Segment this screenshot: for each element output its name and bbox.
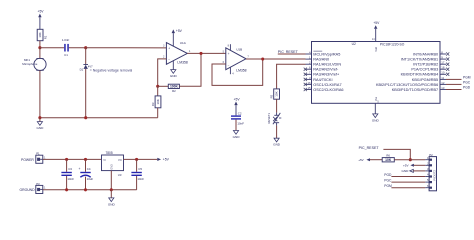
svg-text:R2: R2	[172, 89, 176, 93]
capacitor C3	[61, 159, 74, 189]
svg-text:Microphone: Microphone	[22, 62, 37, 66]
wire D1 node to op-amp U1A + input	[86, 47, 167, 49]
svg-text:+: +	[228, 52, 230, 56]
svg-text:POWER: POWER	[21, 158, 34, 162]
svg-text:C2: C2	[238, 111, 242, 115]
svg-text:+5V: +5V	[163, 158, 170, 162]
wire U1A output to U1B + input	[187, 52, 226, 54]
svg-text:U1B: U1B	[236, 48, 242, 52]
net label PIC_RESET at MCLR	[278, 50, 306, 54]
net PGC wire to P2 pin 5	[384, 179, 425, 183]
resistor R6	[382, 154, 394, 163]
capacitor C5	[131, 159, 144, 189]
P2 pin 2	[425, 161, 432, 166]
svg-text:C1: C1	[64, 53, 68, 57]
svg-text:+5V: +5V	[176, 29, 183, 33]
ground symbol (C2)	[233, 131, 238, 135]
wire R1 bottom to node	[39, 41, 41, 48]
node ground rail / D1	[84, 116, 87, 119]
svg-text:INT2/P1B/RB2: INT2/P1B/RB2	[413, 63, 438, 67]
net PGM wire	[446, 76, 471, 80]
svg-text:R1: R1	[43, 35, 47, 39]
svg-text:+5V: +5V	[234, 97, 241, 101]
svg-text:GND: GND	[402, 169, 410, 173]
svg-text:R5: R5	[270, 94, 274, 98]
svg-text:P2: P2	[429, 153, 433, 157]
node U1B output / feedback	[261, 58, 264, 61]
capacitor C2	[231, 111, 244, 125]
svg-text:13: 13	[441, 86, 445, 90]
svg-text:RESET1: RESET1	[267, 113, 271, 124]
svg-text:RA2/AN2/Vref-: RA2/AN2/Vref-	[313, 68, 339, 72]
svg-text:16: 16	[307, 81, 311, 85]
microcontroller U2 PIC18F1220	[312, 42, 441, 104]
svg-text:= Negative voltage removal: = Negative voltage removal	[90, 68, 133, 72]
connector P1 POWER	[21, 152, 46, 164]
+5V supply at P2 pin 2	[403, 164, 425, 168]
svg-text:P1A/CCP1/RB3: P1A/CCP1/RB3	[411, 68, 438, 72]
svg-text:PIC_RESET: PIC_RESET	[359, 146, 380, 150]
resistor R5	[270, 89, 280, 99]
svg-text:12: 12	[441, 81, 445, 85]
P2 pin 3	[425, 167, 432, 172]
U2 right pin 10 KBI0/DT/RX/AN6/RB4	[401, 71, 450, 77]
svg-text:10nF: 10nF	[237, 122, 244, 126]
net PGD wire	[446, 86, 471, 90]
wire POWER to 7805 input	[43, 158, 102, 160]
svg-text:GND: GND	[372, 118, 380, 122]
P2 pin 4	[425, 173, 432, 178]
svg-text:10uF: 10uF	[87, 177, 94, 181]
svg-text:+: +	[78, 167, 80, 171]
U2 left pin 16 OSC1/CLKI/RA7	[304, 81, 342, 87]
U2 left pin 3 RA4/T0CKI	[304, 76, 333, 82]
resistor R2	[168, 84, 179, 93]
U2 left pin 2 RA1/AN1/LVDIN	[306, 61, 342, 67]
ground rail wire (power section)	[43, 189, 137, 191]
wire 7805 GND pin to ground rail	[110, 171, 112, 190]
ground symbol (mic section)	[36, 118, 44, 130]
resistor R1	[37, 29, 47, 40]
svg-text:PGD: PGD	[463, 86, 471, 90]
svg-text:U1A: U1A	[180, 41, 187, 45]
node U1A output / feedback	[199, 52, 202, 55]
svg-text:U3: U3	[118, 173, 122, 177]
node ground rail / C4	[84, 188, 87, 191]
svg-text:PGC: PGC	[463, 81, 471, 85]
P2 pin 5	[425, 178, 432, 183]
svg-text:PICKIT2: PICKIT2	[432, 170, 436, 181]
svg-text:17: 17	[441, 61, 445, 65]
svg-text:10nF: 10nF	[67, 177, 74, 181]
U2 left pin 7 RA3/AN3/Vref+	[304, 71, 340, 77]
microphone MK1	[22, 48, 46, 71]
wire R3 to ground rail	[157, 108, 159, 118]
svg-text:GND: GND	[111, 164, 114, 170]
ground rail wire (mic section)	[40, 117, 158, 119]
node C5 top	[135, 158, 138, 161]
wire node to C1	[40, 47, 64, 49]
svg-text:INT0/AN4/RB0: INT0/AN4/RB0	[413, 52, 438, 56]
node ground rail / mic	[38, 116, 41, 119]
net PGC wire	[446, 81, 471, 85]
wire U1A inverting input to feedback node	[158, 59, 167, 86]
node mic/R1/C1 junction	[38, 46, 41, 49]
svg-text:RA0/AN0: RA0/AN0	[313, 57, 329, 61]
ground symbol (reset switch)	[274, 138, 279, 142]
wire C1 to D1 node	[69, 47, 86, 49]
connector P3 GROUND	[20, 182, 47, 194]
svg-text:10nF: 10nF	[137, 177, 144, 181]
node D1 junction	[84, 46, 87, 49]
svg-text:GND: GND	[170, 74, 178, 78]
svg-text:+: +	[168, 47, 170, 51]
U2 left pin 4 MCLR/Vpp/RA5	[306, 50, 341, 56]
svg-text:1.0nF: 1.0nF	[62, 38, 70, 42]
svg-text:RA1/AN1/LVDIN: RA1/AN1/LVDIN	[313, 63, 341, 67]
wire switch to ground	[276, 126, 278, 138]
U2 right pin 13 KBI3/P1D/T1OSI/PGD/RB7	[392, 86, 446, 92]
svg-text:+5V: +5V	[403, 164, 410, 168]
+5V output arrow	[157, 158, 169, 162]
capacitor C1	[62, 38, 70, 57]
regulator U3 7805	[102, 151, 124, 177]
svg-text:Vdd: Vdd	[375, 47, 378, 52]
svg-text:INT1/CK/TX/AN5/RB1: INT1/CK/TX/AN5/RB1	[401, 57, 438, 61]
U2 left pin 6 RA2/AN2/Vref-	[304, 66, 339, 72]
U2 left pin 15 OSC2/CLKO/RA6	[304, 86, 344, 92]
wire D1 to ground rail	[85, 69, 87, 118]
node ground rail / C3	[65, 188, 68, 191]
net PGM wire to P2 pin 6	[384, 184, 425, 188]
U2 right pin 12 KBI2/P1C/T13CKI/T1OSO/PGC/RB6	[376, 81, 446, 87]
svg-text:GND: GND	[108, 202, 116, 206]
svg-text:C5: C5	[138, 167, 142, 171]
switch RESET1	[267, 113, 281, 126]
svg-text:+5V: +5V	[373, 21, 380, 25]
net PGD wire to P2 pin 4	[384, 173, 425, 177]
wire PIC RA1 to R5	[277, 64, 306, 89]
U1B V- pin stub	[230, 67, 234, 75]
svg-text:PIC18F1220-SO: PIC18F1220-SO	[380, 42, 405, 46]
svg-text:OSC1/CLKI/RA7: OSC1/CLKI/RA7	[313, 83, 341, 87]
svg-text:PIC_RESET: PIC_RESET	[278, 50, 299, 54]
node R6 / P2 pin 1	[409, 158, 412, 161]
svg-text:R3: R3	[151, 102, 155, 106]
svg-text:KBI2/P1C/T13CKI/T1OSO/PGC/RB6: KBI2/P1C/T13CKI/T1OSO/PGC/RB6	[376, 83, 438, 87]
svg-text:−: −	[228, 63, 230, 67]
svg-text:RA4/T0CKI: RA4/T0CKI	[313, 78, 332, 82]
svg-text:GND: GND	[36, 126, 44, 130]
svg-text:VI: VI	[103, 158, 106, 162]
U2 left pin 1 RA0/AN0	[306, 56, 330, 62]
svg-text:P3: P3	[36, 182, 40, 186]
svg-text:D1: D1	[80, 68, 84, 72]
diode D1	[80, 48, 93, 72]
svg-text:11: 11	[441, 76, 444, 80]
wire node to R2	[158, 85, 169, 87]
U1B V+ pin stub	[228, 44, 231, 50]
svg-text:PGD: PGD	[384, 173, 392, 177]
svg-text:PGM: PGM	[463, 76, 471, 80]
svg-text:OSC2/CLKO/RA6: OSC2/CLKO/RA6	[313, 88, 343, 92]
wire mic bottom to ground rail	[39, 71, 41, 118]
svg-text:+5V: +5V	[358, 158, 363, 162]
svg-text:R6: R6	[386, 154, 390, 158]
+5V supply for R6	[358, 158, 382, 162]
svg-text:C4: C4	[87, 167, 91, 171]
wire C2 to ground	[235, 120, 237, 131]
svg-text:KBI3/P1D/T1OSI/PGD/RB7: KBI3/P1D/T1OSI/PGD/RB7	[392, 88, 438, 92]
svg-text:KBI1/PGM/RB5: KBI1/PGM/RB5	[412, 78, 438, 82]
svg-text:18: 18	[441, 66, 445, 70]
U2 right pin 8 INT0/AN4/RB0	[413, 50, 449, 56]
svg-text:VO: VO	[118, 158, 122, 162]
op-amp U1A	[163, 41, 191, 64]
wire R2 to output feedback	[179, 53, 201, 86]
svg-text:10K: 10K	[385, 158, 392, 162]
svg-text:−: −	[168, 58, 170, 62]
svg-text:U2: U2	[352, 42, 356, 46]
U2 right pin 18 P1A/CCP1/RB3	[411, 66, 449, 72]
connector P2 PICKIT2	[429, 153, 436, 191]
resistor R3	[151, 86, 161, 108]
svg-text:GND: GND	[273, 143, 281, 147]
svg-text:7805: 7805	[106, 151, 113, 155]
svg-text:C3: C3	[68, 167, 72, 171]
U2 Vss pin 5 with ground	[372, 96, 380, 122]
svg-text:PGC: PGC	[384, 179, 392, 183]
svg-text:10: 10	[441, 71, 445, 75]
wire 7805 output to +5V	[124, 158, 158, 160]
svg-text:GND: GND	[233, 135, 241, 139]
svg-text:PGM: PGM	[384, 184, 392, 188]
op-amp U1B	[223, 48, 250, 73]
node C3 top	[65, 158, 68, 161]
svg-text:10K: 10K	[156, 99, 160, 104]
wire R5 to switch	[276, 99, 278, 112]
net label PIC_RESET at programming header	[359, 146, 411, 160]
power +5V supply symbol (mic bias)	[38, 9, 45, 29]
svg-text:P1: P1	[36, 152, 40, 156]
node C4 top	[84, 158, 87, 161]
capacitor C4 polarized	[78, 159, 93, 189]
+5V supply for C2	[234, 97, 241, 115]
U2 right pin 9 INT1/CK/TX/AN5/RB1	[401, 56, 449, 62]
wire R6 to P2 pin 1	[394, 159, 425, 161]
svg-text:LM358: LM358	[236, 68, 246, 72]
U1A V- pin with ground	[170, 61, 178, 78]
svg-text:10K: 10K	[275, 91, 279, 96]
svg-text:15: 15	[307, 86, 311, 90]
ground symbol at P2 pin 3	[402, 169, 426, 173]
svg-text:GROUND: GROUND	[20, 188, 36, 192]
svg-text:RA3/AN3/Vref+: RA3/AN3/Vref+	[313, 73, 340, 77]
P2 pin 1	[425, 156, 432, 161]
wire U1B inverting input feedback loop	[212, 59, 263, 85]
svg-text:LM358: LM358	[177, 60, 187, 64]
ground symbol (power section)	[108, 190, 116, 207]
svg-text:10K: 10K	[38, 32, 42, 37]
svg-text:+5V: +5V	[38, 9, 45, 13]
U2 right pin 17 INT2/P1B/RB2	[413, 61, 449, 67]
svg-text:KBI0/DT/RX/AN6/RB4: KBI0/DT/RX/AN6/RB4	[401, 73, 439, 77]
svg-text:MCLR/Vpp/RA5: MCLR/Vpp/RA5	[313, 52, 340, 56]
wire U1B output to PIC RA0	[246, 58, 306, 60]
node feedback R2/R3	[156, 85, 159, 88]
node ground rail / 7805	[110, 188, 113, 191]
U1A V+ pin with +5V supply	[172, 29, 183, 47]
U2 right pin 11 KBI1/PGM/RB5	[412, 76, 446, 82]
U2 Vdd pin 14 with +5V supply	[372, 21, 380, 52]
P2 pin 6	[425, 184, 432, 189]
